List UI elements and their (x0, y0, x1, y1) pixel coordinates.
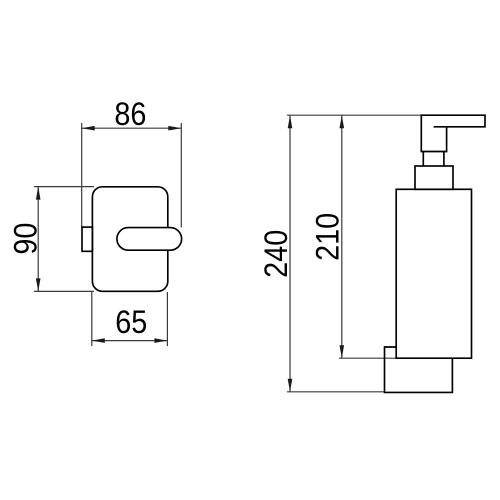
dim 65: left extension line (91, 292, 93, 346)
right view: top extension line (287, 114, 421, 116)
dim 86: dimension line (82, 127, 182, 129)
dim 90: top extension line (34, 186, 94, 188)
right view: pump stem right edge (443, 152, 445, 167)
dim 86: left extension line (81, 123, 83, 227)
left view: wall plate tab (82, 227, 92, 251)
dim 90: bottom extension line (34, 290, 94, 292)
dim 65: right extension line (166, 292, 168, 346)
svg-text:240: 240 (259, 230, 295, 278)
arrow 240 bottom (288, 379, 293, 392)
dim 65: dimension line (92, 340, 168, 342)
dim 210: bottom extension line (339, 357, 396, 359)
right view: pump stem left edge (422, 152, 424, 167)
dim 240: dimension line (289, 115, 291, 392)
arrow 65 right (154, 338, 167, 343)
arrow 65 left (92, 338, 105, 343)
right view: bottle body (396, 189, 471, 358)
arrow 90 bottom (36, 278, 41, 291)
left view: holder body front (92, 187, 167, 291)
arrow 210 bottom (340, 345, 345, 358)
arrow 86 right (168, 126, 181, 131)
arrow 86 left (82, 126, 95, 131)
right view: pump collar (415, 166, 453, 189)
arrow 210 top (340, 115, 345, 128)
right view: pump head with spout (421, 115, 485, 151)
dim 240: bottom extension line (287, 391, 385, 393)
arrow 90 top (36, 187, 41, 200)
svg-text:210: 210 (310, 213, 346, 261)
dim 86: right extension line (180, 123, 182, 227)
dim 90: dimension line (37, 187, 39, 292)
right view: wall holder (385, 347, 453, 392)
left view: lever capsule (117, 228, 182, 251)
arrow 240 top (288, 115, 293, 128)
dim 210: dimension line (341, 115, 343, 358)
svg-text:65: 65 (115, 305, 147, 341)
svg-text:90: 90 (8, 223, 44, 255)
svg-text:86: 86 (114, 97, 146, 133)
